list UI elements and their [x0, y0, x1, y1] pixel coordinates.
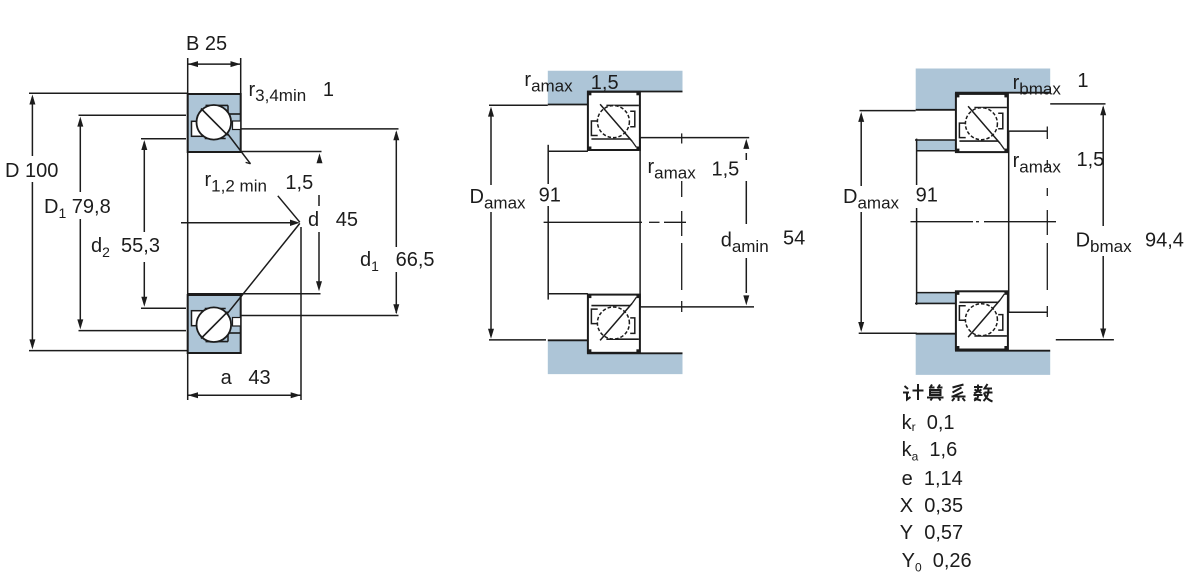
left outer-diameter extension line (tall): [187, 58, 189, 400]
dimension a 43: [188, 227, 301, 400]
svg-text:1,5: 1,5: [591, 72, 619, 94]
svg-text:1: 1: [1077, 70, 1088, 92]
shaft abutment collar lower (blue): [917, 293, 956, 304]
housing shoulder upper (blue): [916, 69, 1050, 110]
svg-text:kr 0,1: kr 0,1: [902, 412, 955, 434]
svg-text:a 43: a 43: [221, 367, 271, 389]
axis centreline: [911, 221, 1057, 223]
svg-text:ka 1,6: ka 1,6: [902, 439, 958, 464]
dimension d2 55,3: [141, 139, 186, 309]
housing shoulder lower (blue): [916, 334, 1050, 375]
shaft shoulder right (da): [640, 138, 754, 307]
svg-text:d 45: d 45: [308, 209, 358, 231]
axis centreline with arrow: [181, 222, 293, 224]
bearing upper cross-section: [188, 94, 241, 152]
svg-text:damin: damin: [721, 229, 769, 256]
svg-text:Dbmax: Dbmax: [1076, 230, 1133, 257]
dimension Damax 91: [489, 105, 548, 340]
shaft abutment collar upper (blue): [917, 140, 956, 151]
bore line d: [188, 293, 321, 295]
svg-text:B 25: B 25: [186, 33, 227, 55]
housing shoulder lower (blue): [548, 340, 683, 374]
axis centreline: [544, 221, 686, 223]
svg-text:ramax: ramax: [648, 156, 697, 183]
svg-text:Damax: Damax: [843, 186, 900, 213]
svg-text:Damax: Damax: [470, 186, 527, 213]
bearing lower cross-section: [188, 295, 241, 353]
svg-text:Y0 0,26: Y0 0,26: [902, 550, 972, 575]
svg-text:D 100: D 100: [5, 160, 58, 182]
dimension d1 66,5: [241, 129, 399, 316]
housing shoulder upper (blue): [548, 71, 683, 105]
svg-text:d1 66,5: d1 66,5: [360, 249, 435, 274]
shaft shoulder left: [548, 145, 588, 300]
svg-text:91: 91: [916, 184, 938, 206]
dimension D1 79,8: [79, 115, 187, 330]
svg-text:54: 54: [783, 228, 805, 250]
chamfer reference dash-dot line: [1046, 127, 1048, 318]
dimension D 100: [29, 93, 188, 350]
inner-ring face line with r1,2 arrow: [241, 151, 322, 153]
数: [974, 384, 993, 402]
svg-text:91: 91: [539, 184, 561, 206]
shaft shoulder left line: [916, 139, 918, 305]
svg-text:1,5: 1,5: [712, 159, 740, 181]
svg-text:r1,2 min: r1,2 min: [205, 169, 267, 196]
contact-angle line upper: [227, 133, 251, 164]
dimension d 45 half-arrow: [318, 195, 320, 282]
dimension Dbmax 94,4: [1050, 104, 1114, 340]
svg-text:94,4: 94,4: [1145, 230, 1184, 252]
bearing upper section: [956, 94, 1008, 152]
svg-text:Y 0,57: Y 0,57: [900, 522, 963, 544]
svg-text:r3,4min 1: r3,4min 1: [249, 79, 335, 105]
svg-text:e 1,14: e 1,14: [902, 468, 963, 490]
svg-text:D1 79,8: D1 79,8: [44, 196, 111, 221]
dimension Damax 91: [859, 111, 917, 334]
bearing lower section: [588, 295, 640, 353]
svg-text:1,5: 1,5: [285, 172, 313, 194]
B dimension line: [188, 58, 241, 94]
contact-angle line lower: [227, 223, 300, 314]
svg-text:1,5: 1,5: [1077, 149, 1105, 171]
svg-text:d2 55,3: d2 55,3: [91, 235, 160, 260]
heading 计算系数 (drawn strokes): [903, 384, 993, 402]
bearing lower section: [956, 291, 1008, 349]
shaft shoulder right (da): [1009, 131, 1048, 312]
系: [952, 385, 966, 402]
svg-text:ramax: ramax: [1013, 150, 1062, 177]
算: [927, 385, 944, 401]
计: [903, 384, 924, 400]
chamfer reference dash-dot line: [681, 133, 683, 312]
svg-text:X 0,35: X 0,35: [900, 495, 963, 517]
dimension damin 54: [745, 153, 747, 293]
bearing upper section: [588, 92, 640, 150]
